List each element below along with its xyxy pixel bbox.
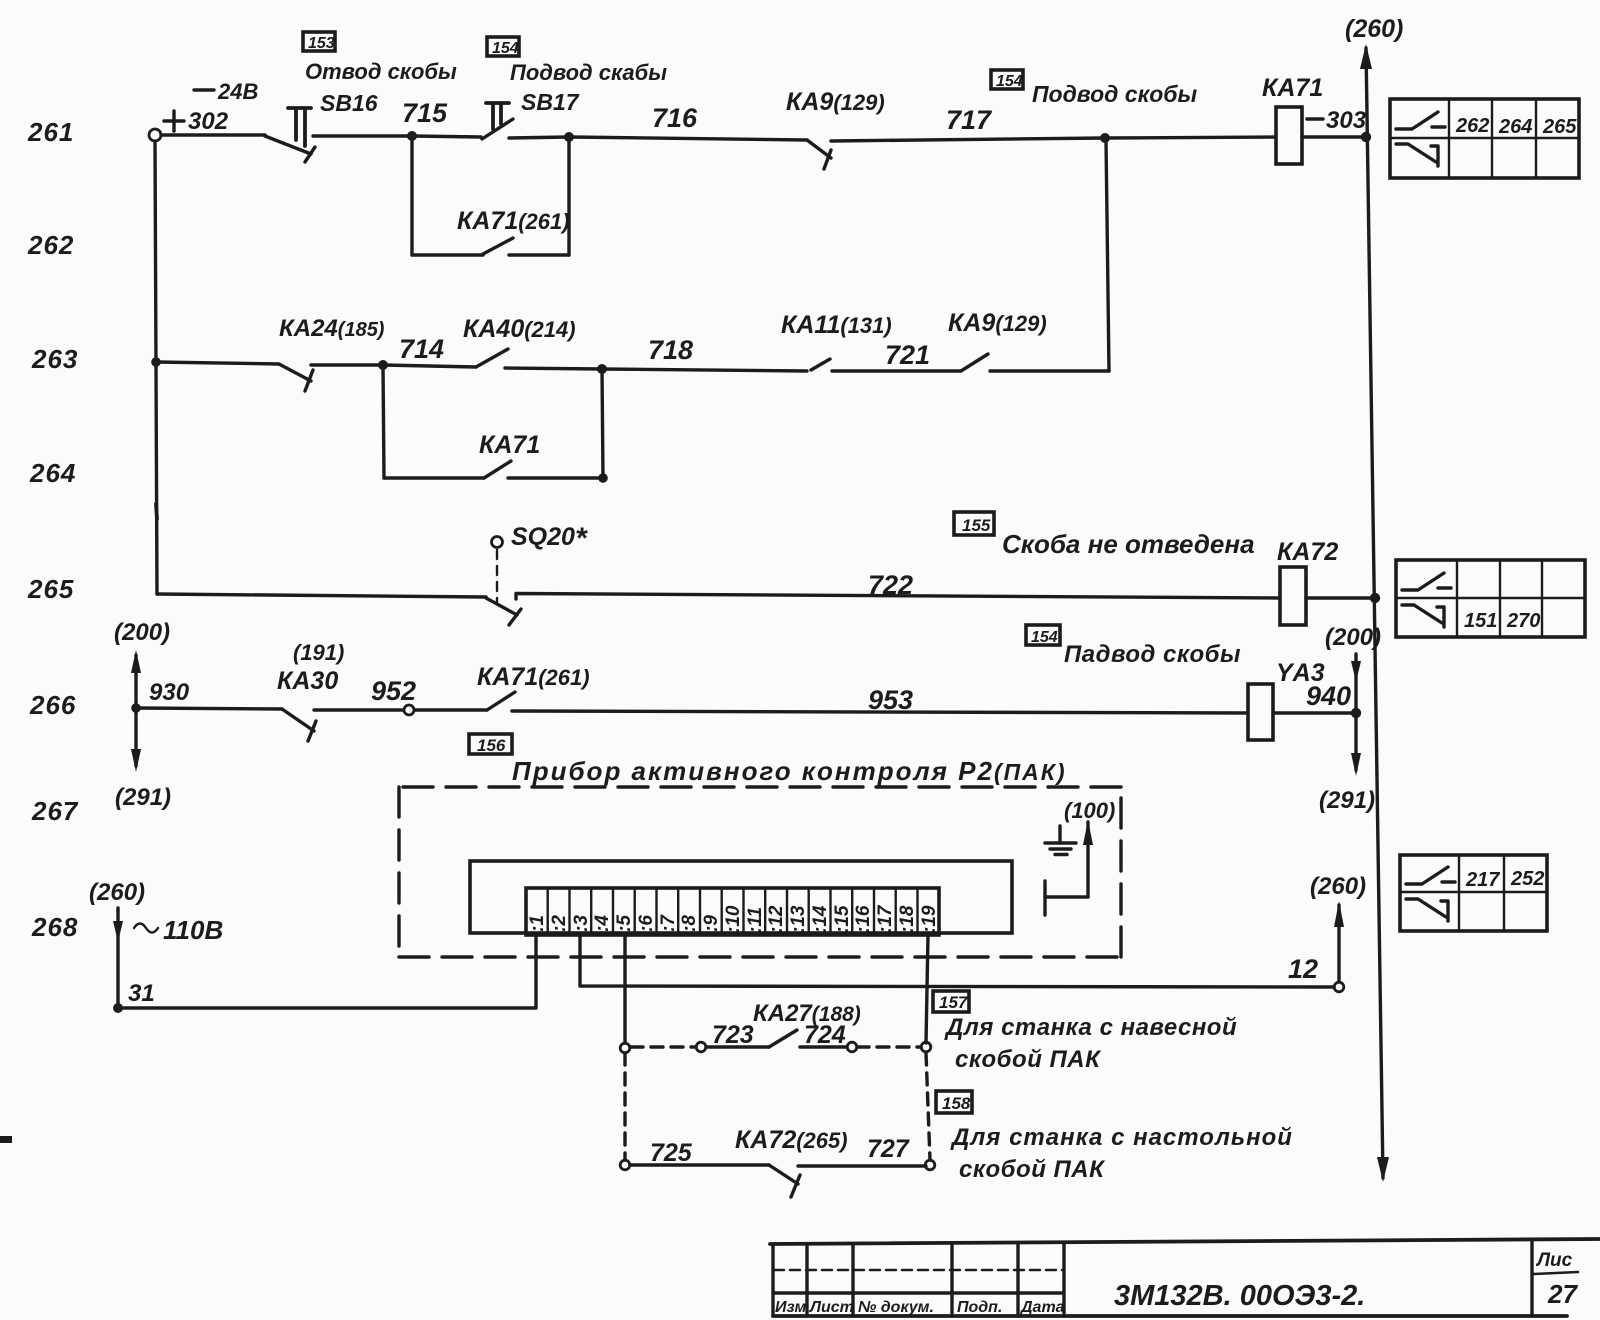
svg-text:262: 262 <box>1455 115 1489 137</box>
svg-text:952: 952 <box>371 676 416 706</box>
svg-text:Изм: Изм <box>775 1299 806 1316</box>
label Podvod skoby <box>510 60 667 85</box>
wire 31 to terminal 1 <box>118 935 536 1008</box>
dashed wire 723 junction down <box>623 1053 626 1160</box>
sheet column <box>1532 1242 1578 1316</box>
ground link wire <box>1045 881 1088 915</box>
svg-text:*: * <box>575 522 588 555</box>
wire 715 <box>313 98 448 136</box>
relay coil KA72 <box>1277 538 1338 625</box>
svg-text:722: 722 <box>868 570 913 600</box>
arrow from (260) row268 <box>113 908 123 1008</box>
svg-text:714: 714 <box>399 334 444 364</box>
svg-text:Подп.: Подп. <box>957 1299 1002 1316</box>
label (260) right low <box>1310 873 1366 900</box>
svg-text:Скоба не отведена: Скоба не отведена <box>1002 529 1255 559</box>
svg-text::13: :13 <box>788 905 809 933</box>
wire terminal 19 down <box>926 935 928 1043</box>
svg-text:266: 266 <box>29 690 76 720</box>
arrow 12 to (260) <box>1334 901 1344 981</box>
svg-text:КА40(214): КА40(214) <box>463 315 576 343</box>
connector 952 <box>404 705 414 715</box>
node 718 <box>597 364 607 374</box>
contact KA24(185) NC <box>279 364 313 391</box>
svg-text:727: 727 <box>867 1135 910 1163</box>
dashed wire to 723 <box>631 1045 696 1048</box>
svg-text::16: :16 <box>853 905 874 933</box>
svg-text:(200): (200) <box>1325 624 1381 651</box>
label (291) left <box>115 784 171 811</box>
limit switch SQ20 contact NC <box>486 598 521 625</box>
wire 718 label <box>602 335 807 371</box>
label dlya stanka s nastolnoy <box>950 1124 1293 1183</box>
terminal strip outline <box>526 888 939 935</box>
svg-text:155: 155 <box>962 516 991 535</box>
sheet ref box 158 <box>936 1091 972 1113</box>
label Otvod skoby <box>305 59 457 84</box>
svg-text:Подвод скабы: Подвод скабы <box>510 60 667 85</box>
label 940 <box>1306 681 1351 711</box>
wire 717 <box>831 105 1105 141</box>
node 261 bus <box>1361 132 1371 142</box>
svg-text:252: 252 <box>1510 868 1544 890</box>
contact KA72(265) NC <box>769 1165 800 1197</box>
svg-text:(260): (260) <box>89 879 145 906</box>
label KA24(185) <box>279 315 385 342</box>
wire 12 from terminal 3 <box>580 935 1334 987</box>
dashed wire 724 to junction <box>857 1045 921 1048</box>
label (260) top <box>1345 15 1403 43</box>
svg-text:263: 263 <box>31 344 78 374</box>
left margin fold mark <box>0 1136 12 1143</box>
label 31 <box>128 980 155 1007</box>
svg-text::18: :18 <box>897 905 918 933</box>
connector 723 junction <box>620 1043 630 1053</box>
svg-text:154: 154 <box>492 40 519 57</box>
svg-text:157: 157 <box>939 993 969 1012</box>
svg-text:725: 725 <box>650 1139 693 1167</box>
wire SB17 to node <box>509 137 569 138</box>
svg-text:SB16: SB16 <box>320 90 378 116</box>
line number 262 <box>27 230 74 260</box>
SQ20 actuator circle <box>492 537 503 548</box>
svg-text:(200): (200) <box>114 619 170 646</box>
svg-text:158: 158 <box>942 1094 971 1113</box>
svg-text:КА71: КА71 <box>1262 74 1323 102</box>
contact table KA71 <box>1390 99 1579 178</box>
label +302 <box>164 108 229 135</box>
svg-text:(291): (291) <box>115 784 171 811</box>
svg-text:24В: 24В <box>217 79 258 104</box>
wire 930 <box>136 679 282 709</box>
svg-text:31: 31 <box>128 980 155 1007</box>
connector 725 <box>620 1160 630 1170</box>
node 31 <box>113 1003 123 1013</box>
label ~110V <box>134 915 223 945</box>
label KA71(261) row266 <box>477 663 590 691</box>
svg-text:264: 264 <box>1498 116 1532 138</box>
wire 263 right <box>990 369 1109 372</box>
terminal +302 <box>149 129 161 141</box>
title block frame <box>770 1239 1600 1316</box>
contact KA30 NC <box>282 709 316 741</box>
wire to SB17 <box>412 136 481 137</box>
svg-text::7: :7 <box>658 914 679 932</box>
wire 953 <box>512 685 1248 715</box>
wire branch 262 horizontal <box>412 253 483 256</box>
svg-text::11: :11 <box>745 907 766 933</box>
svg-text:КА9(129): КА9(129) <box>948 309 1047 337</box>
label Pribor aktivnogo kontrolya P2 (PAK) <box>512 756 1067 786</box>
right vertical bus to (260) <box>1360 44 1389 1182</box>
wire branch 262 left vertical <box>410 136 413 255</box>
left bus 261-265 <box>155 141 157 594</box>
svg-text:3М132В. 00ОЭ3-2.: 3М132В. 00ОЭ3-2. <box>1114 1280 1365 1312</box>
terminal dividers <box>548 888 918 935</box>
wire 725 <box>630 1139 769 1167</box>
svg-text:№ докум.: № докум. <box>858 1299 934 1316</box>
arrow to (100) <box>1083 820 1093 897</box>
svg-text:261: 261 <box>27 117 74 147</box>
wire 261 left <box>161 133 265 136</box>
label Podvod skoby b <box>1032 81 1198 107</box>
svg-text:(100): (100) <box>1064 798 1115 823</box>
label KA27(188) <box>753 1000 861 1027</box>
svg-text:930: 930 <box>149 679 190 706</box>
svg-text:303: 303 <box>1326 107 1367 134</box>
wire branch 264 left vertical <box>383 365 384 478</box>
arrow to (291) right <box>1351 718 1361 776</box>
wire branch 262 right horizontal <box>509 253 569 256</box>
document number 3M132V 00OE3-2 <box>1114 1280 1365 1312</box>
wire terminal 5 down <box>623 935 626 1043</box>
wire 723 <box>706 1021 769 1049</box>
wire 263 left <box>156 362 279 364</box>
wire node714 to KA40 <box>383 365 476 367</box>
contact KA71 NO row264 <box>484 461 511 478</box>
wire 727 <box>798 1135 926 1166</box>
svg-text:КА24(185): КА24(185) <box>279 315 385 342</box>
dashed wire 727 up <box>926 1053 930 1160</box>
svg-text:скобой ПАК: скобой ПАК <box>955 1046 1102 1073</box>
node 265 bus <box>1370 593 1380 603</box>
node 940 <box>1351 708 1361 718</box>
svg-text:12: 12 <box>1288 954 1318 984</box>
svg-text:724: 724 <box>804 1021 846 1049</box>
svg-text:217: 217 <box>1465 869 1500 891</box>
wire 722 <box>516 570 1280 600</box>
relay coil KA71 <box>1262 74 1323 164</box>
sheet ref box 154b <box>991 70 1023 90</box>
svg-text:Подвод скобы: Подвод скобы <box>1032 81 1198 107</box>
sheet ref box 155 <box>954 512 994 535</box>
label KA9(129)b <box>948 309 1047 337</box>
arrow to (291) left <box>131 712 141 772</box>
wire 265 left <box>157 594 486 597</box>
wire coil KA71 to bus <box>1302 135 1366 138</box>
line number 267 <box>31 796 79 826</box>
contact table YA3 <box>1400 855 1547 931</box>
svg-text:716: 716 <box>652 103 698 133</box>
wire 716 <box>569 103 807 140</box>
label (291) right <box>1319 787 1375 814</box>
svg-text:КА9(129): КА9(129) <box>786 88 885 116</box>
label Skoba ne otvedena <box>1002 529 1255 559</box>
sheet ref box 156 <box>469 734 512 755</box>
node 716 <box>564 132 574 142</box>
svg-text:КА72(265): КА72(265) <box>735 1126 848 1154</box>
svg-text:721: 721 <box>885 340 930 370</box>
label KA9(129) <box>786 88 885 116</box>
label SQ20* <box>511 522 588 555</box>
svg-text:110В: 110В <box>163 915 223 945</box>
sheet ref box 154c <box>1026 625 1060 646</box>
svg-text:302: 302 <box>188 108 229 135</box>
node 715 <box>407 131 417 141</box>
svg-text::15: :15 <box>832 905 853 933</box>
node 263 left <box>151 357 161 367</box>
svg-text:264: 264 <box>29 458 76 488</box>
connector 724 <box>847 1042 857 1052</box>
svg-text:Лис: Лис <box>1535 1250 1573 1271</box>
connector 727 <box>925 1160 935 1170</box>
label (200) left <box>114 619 170 646</box>
device inner box <box>470 861 1012 933</box>
node 264 right <box>598 473 608 483</box>
svg-text:Отвод скобы: Отвод скобы <box>305 59 457 84</box>
label (260) row268 <box>89 879 145 906</box>
svg-text:718: 718 <box>648 335 693 365</box>
ground <box>1045 826 1076 855</box>
wire coil KA72 to bus <box>1306 596 1375 599</box>
sheet ref box 153 <box>303 32 335 52</box>
label KA72(265) <box>735 1126 848 1154</box>
sheet ref box 154 <box>487 37 519 57</box>
wire 952 <box>314 676 416 710</box>
svg-text:154: 154 <box>1031 629 1058 646</box>
contact table KA72 <box>1396 560 1585 637</box>
svg-text::2: :2 <box>549 915 570 932</box>
svg-text:(260): (260) <box>1310 873 1366 900</box>
contact KA27(188) NO <box>769 1030 797 1047</box>
label (200) right <box>1325 624 1381 651</box>
svg-text:265: 265 <box>27 574 74 604</box>
wire 721 <box>832 340 960 371</box>
contact KA40(214) NO <box>476 349 508 367</box>
svg-text:(191): (191) <box>293 640 344 665</box>
svg-text:270: 270 <box>1506 610 1540 632</box>
label KA11(131) <box>781 311 892 339</box>
connector 12 <box>1334 982 1344 992</box>
svg-text:SQ20: SQ20 <box>511 523 575 551</box>
svg-text:Падвод скобы: Падвод скобы <box>1064 641 1241 668</box>
svg-text:154: 154 <box>996 73 1023 90</box>
svg-text::19: :19 <box>919 905 940 933</box>
svg-text::1: :1 <box>527 915 548 932</box>
svg-text:(291): (291) <box>1319 787 1375 814</box>
svg-text:Для станка с настольной: Для станка с настольной <box>950 1124 1293 1151</box>
svg-text::4: :4 <box>592 915 613 932</box>
contact KA71(261) NO row262 <box>483 238 513 254</box>
terminal pin labels :1-:19 <box>527 904 940 933</box>
line number 265 <box>27 574 74 604</box>
svg-text:715: 715 <box>402 98 448 128</box>
contact KA71(261) NO row266 <box>487 692 515 710</box>
wire branch 264 right horizontal <box>508 476 603 479</box>
label (100) <box>1064 798 1115 823</box>
svg-text:КА71: КА71 <box>479 431 540 459</box>
svg-text::6: :6 <box>636 915 657 932</box>
svg-text::5: :5 <box>614 915 635 932</box>
svg-text:КА71(261): КА71(261) <box>457 207 570 235</box>
label SB16 <box>320 90 378 116</box>
push button SB17 (NO, Podvod skoby) <box>482 103 513 139</box>
svg-text:723: 723 <box>712 1021 754 1049</box>
svg-text:SB17: SB17 <box>521 89 580 115</box>
wire 718 <box>505 368 602 369</box>
solenoid coil YA3 <box>1248 659 1325 740</box>
label Padvod skoby <box>1064 641 1241 668</box>
wire 714 <box>311 334 444 365</box>
line number 264 <box>29 458 76 488</box>
label SB17 <box>521 89 580 115</box>
connector 724 junction <box>921 1042 931 1052</box>
contact KA9(129)b NO <box>961 354 988 371</box>
wire 952 to KA71 <box>415 708 487 711</box>
svg-text::17: :17 <box>875 904 896 933</box>
node 714 <box>378 360 388 370</box>
arrow from (200) right <box>1351 654 1361 708</box>
title block headers <box>775 1299 1065 1316</box>
label (191) <box>293 640 344 665</box>
svg-text::14: :14 <box>810 905 831 933</box>
svg-text:153: 153 <box>308 35 335 52</box>
label KA30 <box>277 667 338 695</box>
SQ20 actuator dashed link <box>496 550 498 602</box>
contact KA11(131) NO <box>811 359 830 370</box>
label KA71(261) row262 <box>457 207 570 235</box>
wire 724 <box>800 1021 847 1049</box>
svg-text:КА71(261): КА71(261) <box>477 663 590 691</box>
sheet ref box 157 <box>933 991 969 1012</box>
svg-text:Для станка с навесной: Для станка с навесной <box>944 1014 1237 1041</box>
svg-text:КА11(131): КА11(131) <box>781 311 892 339</box>
svg-text:940: 940 <box>1306 681 1351 711</box>
wire branch 264 horizontal <box>384 476 484 479</box>
svg-text:151: 151 <box>1464 610 1497 632</box>
node 930 <box>131 703 141 713</box>
svg-text::3: :3 <box>571 915 592 932</box>
wire 263 up to 261 <box>1106 140 1109 371</box>
label dlya stanka s navesnoy <box>944 1014 1237 1073</box>
dashed enclosure P2 PAK <box>399 787 1121 957</box>
line number 268 <box>31 912 78 942</box>
wire branch 262 right vertical <box>567 137 570 255</box>
svg-text:КА72: КА72 <box>1277 538 1338 566</box>
label -24V <box>194 79 258 104</box>
svg-text:267: 267 <box>31 796 79 826</box>
svg-text:953: 953 <box>868 685 913 715</box>
connector 723 <box>696 1042 706 1052</box>
svg-text:156: 156 <box>477 736 506 755</box>
svg-text:(260): (260) <box>1345 15 1403 43</box>
svg-text::10: :10 <box>723 905 744 933</box>
svg-text:Прибор активного контроля Р2(: Прибор активного контроля Р2(ПАК) <box>512 756 1067 786</box>
label KA71 row264 <box>479 431 540 459</box>
line number 263 <box>31 344 78 374</box>
wire branch 264 right vertical <box>602 369 603 478</box>
svg-text:Дата: Дата <box>1019 1299 1065 1316</box>
svg-text:Лист: Лист <box>809 1299 854 1316</box>
svg-text:265: 265 <box>1542 116 1577 138</box>
wire node to coil KA71 <box>1105 137 1276 138</box>
svg-text::8: :8 <box>679 915 700 932</box>
svg-text:262: 262 <box>27 230 74 260</box>
label KA40(214) <box>463 315 576 343</box>
svg-text:717: 717 <box>946 105 993 135</box>
svg-text::12: :12 <box>766 905 787 933</box>
svg-text:27: 27 <box>1547 1279 1578 1309</box>
arrow to (200) left <box>131 650 141 706</box>
label -303 <box>1307 107 1367 134</box>
wire coil YA3 to node <box>1273 711 1356 714</box>
contact KA9(129) NC <box>807 140 831 169</box>
svg-text:скобой ПАК: скобой ПАК <box>959 1156 1106 1183</box>
push button SB16 (NC, Otvod skoby) <box>265 108 315 162</box>
line number 266 <box>29 690 76 720</box>
svg-text:268: 268 <box>31 912 78 942</box>
node before coil KA71 <box>1100 133 1110 143</box>
line number 261 <box>27 117 74 147</box>
svg-text:КА30: КА30 <box>277 667 338 695</box>
svg-text::9: :9 <box>701 915 722 932</box>
